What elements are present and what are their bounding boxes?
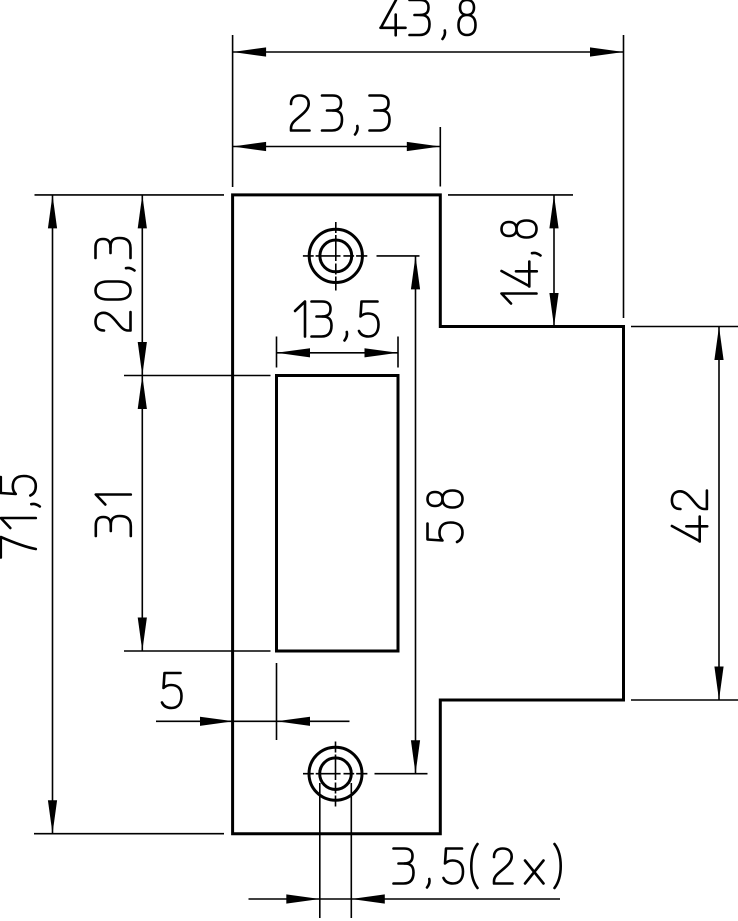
ext line 13,5 left above slot	[276, 337, 278, 368]
dim line 13,5	[277, 352, 399, 354]
ext line 58 top	[377, 255, 420, 257]
hole top crosshair vertical	[335, 222, 337, 291]
dim line 42	[718, 327, 720, 701]
dim line 14,8	[553, 195, 555, 327]
dim line 58	[415, 256, 417, 774]
label 43,8	[381, 0, 476, 39]
hole top outer circle	[309, 229, 362, 282]
ext line hole diameter left	[319, 783, 321, 918]
label 3,5(2x)	[394, 844, 561, 888]
ext line 23,3 right	[439, 127, 441, 187]
ext line slot-top	[124, 375, 271, 377]
ext line slot-left down	[276, 663, 278, 740]
label 71,5 rotated	[1, 476, 40, 558]
hole bottom crosshair horizontal	[303, 773, 368, 775]
ext line top-left horizontal	[35, 194, 225, 196]
ext line 13,5 right above slot	[397, 337, 399, 368]
plate outline	[233, 195, 624, 834]
ext line bottom-left horizontal	[34, 833, 224, 835]
slot rectangle	[277, 376, 399, 652]
label 23,3	[291, 96, 390, 135]
ext line slot-bottom	[124, 650, 271, 652]
label 20,3 rotated	[96, 238, 135, 331]
hole top inner circle	[320, 240, 352, 272]
ext line hole diameter right	[350, 783, 352, 918]
ext line 14,8 top	[448, 194, 573, 196]
label 58 rotated	[428, 491, 463, 543]
dim line 20,3	[141, 195, 143, 376]
dim line 3,5	[249, 898, 561, 900]
ext line 42 top	[631, 326, 738, 328]
label 13,5	[295, 302, 379, 341]
label 42 rotated	[672, 491, 707, 542]
hole bottom crosshair vertical	[335, 742, 337, 807]
dim line 43,8	[233, 51, 624, 53]
ext line 58 bottom	[375, 773, 428, 775]
hole bottom outer circle	[309, 747, 362, 800]
dim line 71,5	[52, 195, 54, 834]
ext line 43,8 right	[623, 35, 625, 318]
label 14,8 rotated	[502, 221, 541, 304]
ext line 42 bottom	[631, 699, 738, 701]
dim line 5	[156, 720, 350, 722]
label 31 rotated	[96, 495, 131, 537]
dim line 31	[141, 376, 143, 652]
hole bottom inner circle	[320, 758, 352, 790]
dim line 23,3	[233, 146, 441, 148]
ext line 43,8 left	[232, 35, 234, 187]
hole top crosshair horizontal	[303, 255, 367, 257]
label 5	[162, 673, 182, 708]
